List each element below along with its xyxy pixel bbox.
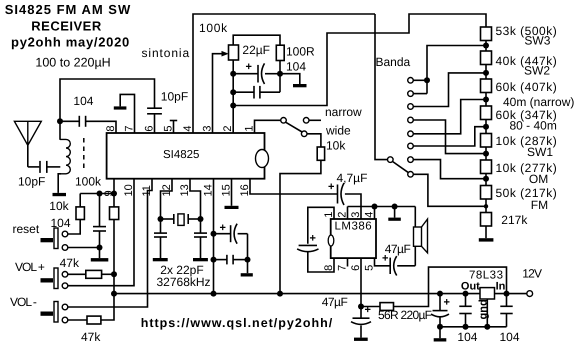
wire [102, 273, 114, 275]
svg-text:13: 13 [179, 184, 191, 196]
svg-text:+: + [328, 181, 334, 193]
wire to ground [280, 74, 300, 84]
svg-text:+: + [220, 222, 226, 234]
svg-text:SI4825: SI4825 [163, 149, 199, 161]
banda contact 2 [408, 91, 414, 97]
node [504, 291, 510, 297]
wire to speaker [397, 265, 415, 267]
svg-text:47k: 47k [81, 330, 101, 344]
node 40m [483, 97, 489, 103]
wire [68, 273, 86, 275]
speaker [414, 227, 422, 246]
capacitor 22pF b [200, 219, 202, 233]
ground ladder [479, 238, 494, 241]
svg-text:47µF: 47µF [322, 295, 348, 309]
svg-text:+: + [246, 61, 252, 73]
banda wiper contact [408, 172, 414, 178]
svg-text:10pF: 10pF [161, 90, 188, 104]
svg-text:narrow: narrow [325, 105, 362, 119]
node [437, 291, 443, 297]
node [392, 204, 398, 210]
svg-text:22µF: 22µF [242, 43, 270, 57]
inductor L1 [60, 139, 70, 173]
svg-text:https://www.qsl.net/py2ohh/: https://www.qsl.net/py2ohh/ [141, 316, 334, 330]
svg-text:VOL -: VOL - [10, 295, 37, 309]
resistor 10k 287k [481, 134, 492, 148]
node [484, 324, 490, 330]
capacitor 10pF antenna [39, 161, 41, 173]
wire 100k to rail [113, 274, 115, 293]
capacitor 22pF a [160, 219, 162, 233]
terminal 12V [527, 291, 533, 297]
resistor 10k wide [317, 147, 324, 160]
banda pole contact [388, 157, 394, 163]
wire wide to 10k [307, 134, 321, 147]
svg-text:In: In [496, 281, 506, 293]
node [211, 291, 217, 297]
wire tank to coil [59, 121, 61, 140]
svg-text:104: 104 [457, 330, 477, 344]
svg-text:100k: 100k [75, 175, 102, 189]
resistor 60k 407k [481, 79, 492, 93]
wire [485, 199, 487, 213]
contact [62, 283, 68, 289]
antenna [14, 121, 41, 145]
banda contact 3 [408, 104, 414, 110]
wire pin4 riser top rail [193, 14, 375, 133]
capacitor 4.7uF [337, 185, 339, 204]
wire c5 to 40m [413, 100, 486, 134]
node [463, 291, 469, 297]
svg-text:60k (407k): 60k (407k) [496, 80, 558, 94]
node [230, 71, 236, 77]
wire lm pin1 [308, 207, 334, 244]
wire pin3 to wiper [213, 54, 227, 133]
node [424, 77, 430, 83]
wire to pin 8 [86, 121, 116, 133]
wire vol+ to pin10 [68, 179, 134, 286]
wire pot top to 100R [233, 35, 280, 45]
wire c2 [413, 93, 427, 95]
inductor core dashed [83, 138, 85, 172]
wire [485, 147, 487, 160]
contact [62, 304, 68, 310]
svg-text:SW3: SW3 [524, 34, 550, 48]
resistor 100R [276, 45, 284, 60]
wire sw3 riser [427, 46, 486, 94]
wire pin2 to ladder top [233, 14, 486, 106]
svg-text:2: 2 [222, 125, 234, 131]
wire [485, 174, 487, 186]
wire gnd 78L33 [486, 299, 488, 327]
banda contact 5 [408, 131, 414, 137]
svg-text:104: 104 [500, 330, 520, 344]
regulator 78L33 [480, 288, 495, 299]
capacitor 47uF out [389, 258, 391, 274]
ground [153, 258, 168, 261]
potentiometer 100k [229, 45, 239, 60]
wire pin14 [213, 179, 215, 294]
svg-text:sintonia: sintonia [142, 46, 191, 60]
node [198, 216, 204, 222]
svg-text:FM: FM [531, 198, 548, 212]
wire [485, 65, 487, 80]
svg-text:+: + [310, 233, 316, 245]
resistor 60k 347k [481, 106, 492, 120]
wire [68, 319, 87, 321]
banda contact 7 [408, 157, 414, 163]
svg-text:SW1: SW1 [527, 145, 553, 159]
rail Vcc [114, 293, 527, 295]
wire 10k down [280, 160, 321, 293]
button vol- [54, 302, 58, 323]
ground [360, 326, 362, 338]
wire pin12 [161, 179, 173, 219]
svg-text:Banda: Banda [376, 55, 411, 69]
svg-text:3: 3 [350, 212, 362, 218]
svg-text:32768kHz: 32768kHz [157, 275, 211, 289]
switch pole contact [281, 118, 287, 124]
node [111, 271, 117, 277]
node 80-40m [483, 124, 489, 130]
wire vol- to pin11 [68, 179, 152, 307]
node [111, 291, 117, 297]
switch contact narrow [303, 118, 309, 124]
IC U2 index ellipse [328, 235, 334, 246]
node tank [57, 118, 63, 124]
wire [247, 234, 249, 260]
svg-text:15: 15 [220, 184, 232, 196]
node x280 rail [277, 291, 283, 297]
wire 56R to 12V [394, 267, 507, 306]
svg-text:10k: 10k [326, 139, 346, 153]
wire [485, 41, 487, 52]
wire tank top [60, 79, 155, 121]
button reset [54, 228, 58, 249]
switch contact wide [301, 131, 307, 137]
svg-text:LM386: LM386 [335, 221, 373, 233]
svg-text:py2ohh may/2020: py2ohh may/2020 [11, 35, 130, 50]
node [372, 204, 378, 210]
svg-text:40m (narrow): 40m (narrow) [503, 95, 574, 109]
svg-text:Out: Out [461, 281, 480, 293]
crystal 32768kHz [161, 218, 174, 220]
resistor 100k pin9 [113, 194, 115, 207]
wire wiper to FM [413, 174, 486, 206]
wire banda pole riser [375, 14, 388, 160]
pin 15 ground [231, 179, 233, 206]
IC U1 SI4825 body [107, 133, 265, 179]
wire cap to pin8 [308, 252, 334, 272]
resistor 40k [481, 51, 492, 65]
ground coil [53, 193, 67, 196]
contact [62, 245, 68, 251]
svg-text:6: 6 [143, 125, 155, 131]
ground [193, 258, 208, 261]
node [437, 324, 443, 330]
contact [62, 231, 68, 237]
wire lm pin7 NC [347, 258, 349, 266]
resistor 50k 217k [481, 186, 492, 200]
node [463, 324, 469, 330]
rail lm gnd [348, 206, 416, 208]
svg-text:+: + [444, 297, 450, 309]
svg-text:100 to 220µH: 100 to 220µH [35, 56, 110, 70]
svg-text:VOL +: VOL + [15, 260, 45, 274]
pin 7 wire [120, 94, 134, 133]
wire rail to speaker [414, 207, 416, 228]
capacitor 104 reset [99, 194, 101, 227]
banda contact 6 [408, 143, 414, 149]
banda contact 4 [408, 117, 414, 123]
wire [485, 120, 487, 134]
contact [62, 272, 68, 278]
resistor 47k vol+ [86, 270, 102, 278]
resistor 53k [481, 27, 492, 41]
capacitor 104 bypass [214, 259, 227, 261]
svg-text:16: 16 [239, 184, 251, 196]
svg-text:10: 10 [123, 184, 135, 196]
svg-text:RECEIVER: RECEIVER [31, 19, 102, 34]
wire pin1 [255, 120, 281, 133]
svg-text:7: 7 [123, 125, 135, 131]
svg-text:80 - 40m: 80 - 40m [510, 119, 557, 133]
wire 104 up [279, 74, 281, 93]
svg-text:OM: OM [529, 172, 548, 186]
wire 100R bottom [279, 61, 281, 74]
ground 220uF [439, 327, 441, 338]
svg-text:5: 5 [162, 125, 174, 131]
svg-text:14: 14 [202, 184, 214, 196]
wire [485, 93, 487, 107]
node [97, 245, 103, 251]
capacitor 22uF [233, 73, 258, 75]
svg-text:10k: 10k [49, 199, 69, 213]
wire pin 6 [154, 114, 156, 133]
svg-text:104: 104 [286, 60, 306, 74]
svg-text:SI4825 FM AM SW: SI4825 FM AM SW [5, 2, 131, 17]
rail reset [80, 193, 114, 195]
wire [101, 294, 114, 320]
capacitor 220uF [439, 294, 441, 311]
wire c4 to SW1 [413, 120, 486, 154]
wire c7 to OM [413, 160, 486, 179]
wire pin2 riser [232, 106, 234, 134]
wire [485, 226, 487, 238]
node [211, 231, 217, 237]
svg-text:47µF: 47µF [385, 242, 411, 256]
capacitor 47uF bypass [214, 233, 231, 235]
node OM [483, 176, 489, 182]
wire contact to gnd [68, 247, 100, 249]
svg-text:1: 1 [243, 125, 255, 131]
wire pin9 [113, 179, 115, 194]
svg-text:217k: 217k [501, 213, 528, 227]
resistor 10k 277k [481, 160, 492, 174]
svg-text:4: 4 [182, 125, 194, 131]
wire lm pin4 [374, 207, 376, 220]
svg-text:56R 220µF: 56R 220µF [378, 308, 432, 322]
svg-text:10pF: 10pF [18, 175, 45, 189]
wire [28, 166, 40, 168]
capacitor 104 agc [233, 91, 254, 93]
svg-text:3: 3 [201, 125, 213, 131]
wire lm pin2 [347, 207, 349, 220]
resistor 47k vol- [87, 316, 101, 324]
node [358, 304, 364, 310]
svg-text:12V: 12V [522, 267, 542, 281]
capacitor 10pF pin6 [147, 107, 162, 109]
banda contact 1 [408, 78, 414, 84]
svg-text:SW2: SW2 [524, 64, 550, 78]
node SW3 [483, 43, 489, 49]
svg-text:47k: 47k [60, 256, 80, 270]
svg-text:8: 8 [105, 125, 117, 131]
svg-text:100k: 100k [199, 21, 228, 35]
wire pin16 [250, 179, 337, 194]
node [245, 257, 251, 263]
svg-text:reset: reset [13, 222, 40, 236]
node SW2 [483, 70, 489, 76]
pin 5 stub NC [173, 121, 175, 134]
wire pin13 [190, 179, 201, 219]
wire coil to ground [58, 174, 61, 193]
node SW1 [483, 151, 489, 157]
resistor 56R [361, 306, 380, 308]
node [230, 103, 236, 109]
resistor 217k [481, 213, 492, 227]
wire c1 [413, 79, 427, 81]
wire 100k down [113, 220, 115, 275]
capacitor 104 antenna [60, 120, 79, 122]
capacitor 104 in [506, 314, 508, 327]
ground [247, 260, 249, 274]
svg-text:4,7µF: 4,7µF [337, 171, 368, 185]
wire [47, 166, 60, 168]
capacitor 104 out [465, 294, 467, 307]
node FM [484, 204, 488, 208]
banda wiper arm [392, 161, 408, 172]
wire 10k to contact [68, 220, 80, 235]
rail gnd 78L33 [440, 326, 507, 328]
wire to 10k [79, 194, 81, 207]
node [230, 89, 236, 95]
capacitor 47uF lm386 [360, 307, 362, 319]
resistor 10k reset [76, 207, 84, 220]
svg-text:104: 104 [73, 94, 93, 108]
wire lm pin5 [375, 258, 390, 266]
IC U1 index ellipse [256, 150, 269, 168]
IC U2 LM386 body [331, 219, 376, 258]
ground pin7 [114, 106, 127, 109]
wire lm pin6 [360, 258, 362, 306]
switch wiper [286, 122, 303, 132]
wire c3 to SW2 [413, 73, 486, 107]
svg-text:100R: 100R [286, 45, 315, 59]
ground reset [99, 248, 101, 259]
wire c6 to 80-40m [413, 127, 486, 146]
wire [439, 318, 441, 327]
ground 100R [293, 84, 307, 87]
node [277, 71, 283, 77]
wire pot bottom [232, 60, 234, 106]
contact [62, 317, 68, 323]
node [211, 257, 217, 263]
ground lm [394, 207, 396, 218]
wire to LM386 pin3 [345, 194, 361, 219]
node [111, 191, 117, 197]
button vol+ [54, 268, 58, 289]
svg-text:wide: wide [325, 124, 351, 138]
capacitor gain 1-8 [299, 244, 317, 246]
node [97, 191, 103, 197]
node [158, 216, 164, 222]
